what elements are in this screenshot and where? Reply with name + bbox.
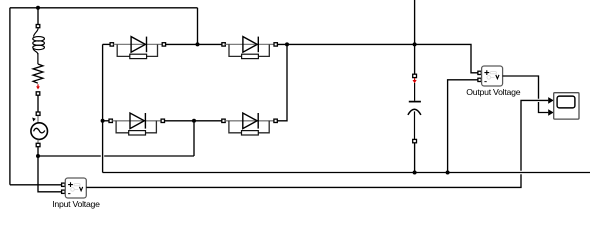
C1 port 2 <box>413 139 417 142</box>
wire: riser to bridge bottom midpoint <box>193 123 195 156</box>
D1 snubber resistor box <box>130 54 147 58</box>
wire: capacitor bottom to DC- rail <box>414 143 416 173</box>
port + of AC source <box>36 112 40 115</box>
wire: left bus stub to D1 anode <box>103 43 110 45</box>
D1 cathode port <box>162 43 165 46</box>
U2 - input port <box>478 78 481 81</box>
wire: Output Voltage - to DC- rail <box>448 80 478 173</box>
current direction arrow (red) <box>37 84 39 87</box>
voltage measurement block U1 (Input Voltage) <box>62 178 87 198</box>
D3 diode triangle <box>130 113 144 129</box>
diode D4 <box>222 113 277 135</box>
junction: capacitor bottom tee <box>413 171 417 175</box>
scope body <box>554 93 579 119</box>
D4 cathode port <box>274 119 277 122</box>
wire: AC source - down to node A <box>37 147 39 156</box>
U1 minus symbol <box>68 193 70 195</box>
C1 port 1 <box>413 74 417 77</box>
C1 current arrow (red) <box>414 78 416 80</box>
diode D1 <box>110 37 165 59</box>
wire: left rail to Input Voltage + <box>10 184 62 186</box>
scope input 1 arrowhead <box>548 97 554 104</box>
D3 cathode port <box>161 119 164 122</box>
wire: bridge left bus <box>102 44 104 172</box>
U2 + input port <box>478 71 481 74</box>
U1 - input port <box>62 190 65 193</box>
D2 snubber resistor box <box>242 54 259 58</box>
port - of AC source <box>36 143 40 146</box>
U1 plus symbol <box>68 182 73 187</box>
wire: L to R internal <box>37 53 39 64</box>
wire: D1 cathode to D2 anode <box>166 43 222 45</box>
D4 snubber resistor box <box>242 131 259 135</box>
C1 top plate <box>409 101 421 103</box>
U1 faint internal icon <box>71 184 80 192</box>
D4 snubber branch <box>229 121 269 133</box>
wire: DC- rail (gap at scope feed crossing) <box>103 172 590 174</box>
junction: source branch top node <box>36 6 40 10</box>
U1 + input port <box>62 183 65 186</box>
wire: source branch top stub <box>37 8 39 25</box>
wire: Input Voltage v to Scope input 1 (gaps at rail and at OV wire crossing) <box>86 100 548 187</box>
stub circle to port <box>37 139 39 143</box>
D3 snubber branch <box>116 121 156 133</box>
capacitor C1 <box>408 74 421 143</box>
diode D2 <box>222 37 278 59</box>
scope input 2 arrowhead <box>548 109 554 116</box>
D1 diode triangle <box>131 37 145 53</box>
D2 cathode bar <box>257 37 259 53</box>
inductor L coil <box>34 28 39 37</box>
D3 snubber resistor box <box>129 131 146 135</box>
port 2 of RLC branch <box>36 92 40 95</box>
junction: Output Voltage return tee <box>446 171 450 175</box>
wire: Output Voltage v to Scope input 2 (gap at crossing) <box>503 76 549 113</box>
wire: node A to Input Voltage - <box>38 156 62 192</box>
port 1 of RLC branch <box>36 25 40 28</box>
C1 wire to top plate <box>414 83 416 101</box>
junction: bridge top midpoint (AC input 1) <box>196 42 200 46</box>
U2 block body <box>482 66 503 86</box>
junction: left bus at D3 <box>101 119 105 123</box>
C1 bottom plate (arc) <box>408 109 421 115</box>
U2 v symbol <box>496 75 499 79</box>
D2 cathode port <box>274 43 277 46</box>
D3 internal rail <box>112 120 161 122</box>
wire: top rail <box>10 7 198 9</box>
sine symbol <box>34 128 45 133</box>
wire: left rail <box>9 8 11 185</box>
junction: node A (AC neutral) <box>36 154 40 158</box>
D3 anode port <box>109 119 112 122</box>
C1 wire to bottom port <box>414 111 416 139</box>
wire: DC+ rail to Output Voltage + <box>278 44 478 72</box>
wire: left bus stub to D3 anode <box>103 120 109 122</box>
source circle <box>31 123 48 140</box>
D4 anode port <box>222 119 225 122</box>
D2 diode triangle <box>243 37 257 53</box>
D2 snubber branch <box>229 44 269 56</box>
U1 v symbol <box>80 187 83 191</box>
D4 internal rail <box>225 120 274 122</box>
D1 anode port <box>110 43 113 46</box>
junction: bridge bottom midpoint (AC input 2) <box>192 119 196 123</box>
wire: bridge right bus <box>277 44 287 120</box>
resistor R zigzag <box>33 64 43 83</box>
junction: capacitor top tee <box>413 42 417 46</box>
wire: node A to bridge bottom midpoint (gap at left bus crossing) <box>38 155 194 157</box>
scope screen <box>557 96 575 108</box>
U2 faint internal icon <box>487 72 496 80</box>
U2 plus symbol <box>484 70 489 75</box>
label: Input Voltage <box>26 199 126 209</box>
D4 diode triangle <box>243 113 257 129</box>
junction: DC+ node at right bus <box>285 42 289 46</box>
D2 anode port <box>222 43 225 46</box>
wire: top rail drop to bridge top midpoint <box>197 8 199 45</box>
AC voltage source V1 <box>31 112 48 147</box>
wire: RLC branch to AC source <box>37 95 39 112</box>
scope block <box>554 93 579 119</box>
D2 internal rail <box>225 43 274 45</box>
wire: D3 cathode to D4 anode <box>165 120 222 122</box>
D1 internal rail <box>114 43 163 45</box>
stub port to circle <box>37 116 39 123</box>
D3 cathode bar <box>144 113 146 129</box>
voltage measurement block U2 (Output Voltage) <box>478 66 503 86</box>
D4 cathode bar <box>257 113 259 129</box>
D1 snubber branch <box>117 44 157 56</box>
U1 block body <box>65 178 86 198</box>
label: Output Voltage <box>443 87 543 97</box>
diode D3 <box>109 113 165 135</box>
polarity arrow <box>32 118 36 122</box>
U2 minus symbol <box>484 81 486 83</box>
series RLC branch (L and R) <box>33 25 45 96</box>
D1 cathode bar <box>146 37 148 53</box>
wire: feed from top edge to capacitor <box>414 0 416 74</box>
